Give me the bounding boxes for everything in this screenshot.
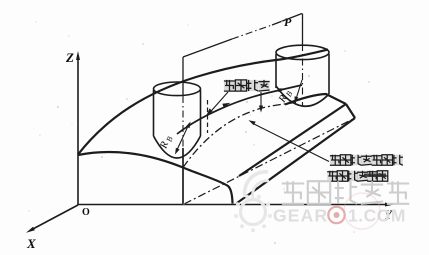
workpiece rear top edge (curve A) <box>78 50 328 155</box>
watermark pink circle bottom right <box>344 193 380 229</box>
Z axis <box>77 55 79 205</box>
svg-text:O: O <box>82 207 90 218</box>
radius start arrowhead <box>186 122 191 129</box>
watermark red circle glyph <box>328 207 344 223</box>
label: tool-center trajectory (刀心轨迹) <box>224 80 235 91</box>
label line2 (切的刀点轨迹) <box>327 171 338 182</box>
svg-text:P: P <box>284 15 292 29</box>
block right corner edge C1-C2 <box>346 104 355 118</box>
plane P top edge <box>183 39 232 57</box>
workpiece front-left top edge (curve C) <box>78 152 233 203</box>
Y axis <box>78 204 388 206</box>
left cutter (ball-end mill) <box>154 82 201 96</box>
right cutter radius arrow <box>296 80 302 99</box>
left cutter radius arrow <box>176 124 189 152</box>
inclined face front edge E <box>237 118 355 203</box>
X axis <box>31 205 78 230</box>
leader arrow 1 <box>209 92 229 114</box>
inclined face top edge D <box>239 104 346 176</box>
svg-text:X: X <box>26 236 36 251</box>
svg-text:GEAR: GEAR <box>273 206 328 226</box>
watermark swoosh <box>245 172 268 197</box>
plane P right edge <box>302 14 304 45</box>
contact-point path (dash-dot) <box>183 103 296 168</box>
direction arrow on tool path <box>222 103 230 108</box>
right cutter Rn label <box>277 88 295 106</box>
paper speckles <box>142 43 144 45</box>
tool-center path curve <box>177 85 302 134</box>
svg-text:B: B <box>165 135 175 143</box>
hidden plane-bottom trace (dash-dot) <box>184 118 355 204</box>
vertical dashed tie line <box>207 100 209 133</box>
smudge on line2 <box>364 174 386 177</box>
watermark gear icon <box>241 200 266 225</box>
direction arrow 2 on tool path <box>278 88 286 92</box>
label: contact point trajectory line1 (与工件的曲面相) <box>330 155 341 166</box>
watermark chinese text <box>282 181 304 204</box>
leader arrow 2 <box>260 92 262 108</box>
svg-text:Z: Z <box>65 50 74 65</box>
left cutter Rn label <box>158 134 175 151</box>
svg-text:1.COM: 1.COM <box>348 206 406 226</box>
plane P left edge <box>182 57 184 96</box>
leader arrow 3 <box>252 123 329 162</box>
right cutter (ball-end mill) <box>276 45 329 59</box>
workpiece front top edge right (curve B) <box>285 94 346 105</box>
